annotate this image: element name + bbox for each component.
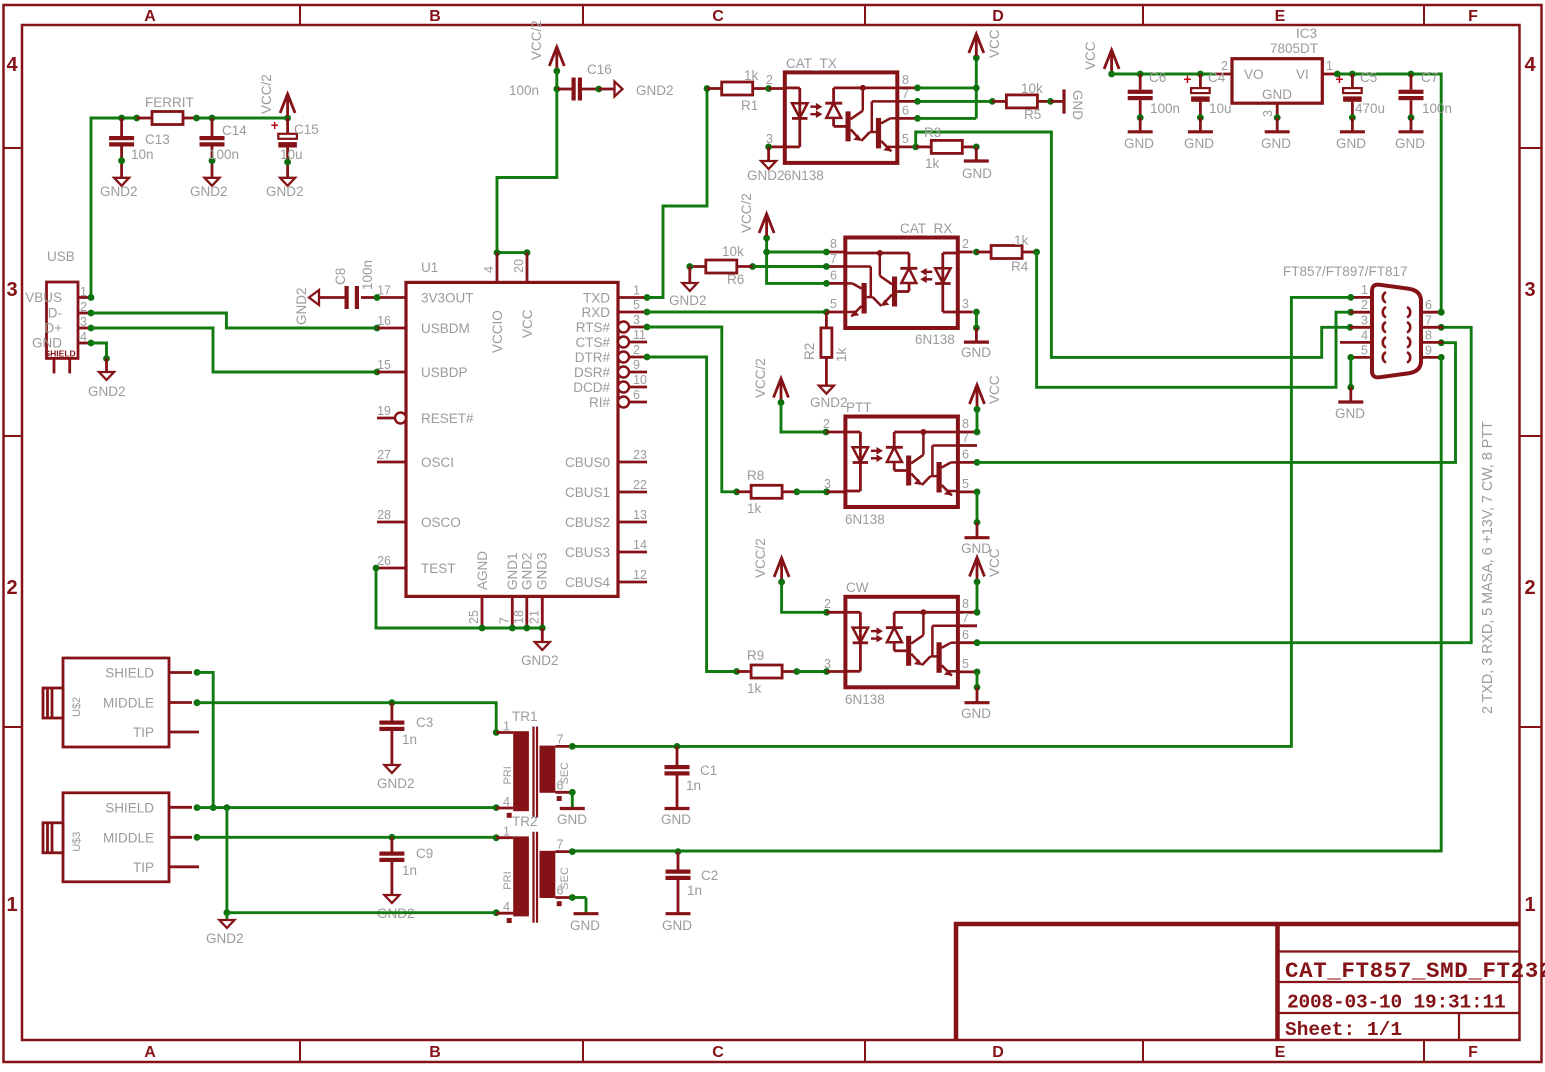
- supply VCC/2 (C16): [549, 43, 564, 74]
- ground GND2 (C15): [266, 178, 304, 199]
- title block: [954, 922, 1520, 1040]
- svg-text:19: 19: [377, 404, 391, 418]
- svg-text:CBUS2: CBUS2: [565, 515, 610, 530]
- svg-text:VCC/2: VCC/2: [753, 358, 768, 398]
- svg-text:5: 5: [902, 132, 909, 146]
- svg-text:CAT_FT857_SMD_FT232: CAT_FT857_SMD_FT232: [1285, 958, 1545, 984]
- junction DB9 pin6: [1438, 309, 1445, 316]
- svg-text:U1: U1: [421, 260, 438, 275]
- svg-text:DSR#: DSR#: [574, 365, 611, 380]
- ground GND2 (CAT_TX pin3): [747, 161, 785, 183]
- svg-text:7: 7: [902, 87, 909, 101]
- svg-text:GND2: GND2: [669, 293, 707, 308]
- svg-text:2: 2: [80, 300, 87, 314]
- wire TR2 pin6 to GND: [569, 894, 586, 914]
- label R9 1k: [747, 648, 764, 696]
- label IC3 7805DT: [1270, 26, 1318, 56]
- capacitor C13: [109, 118, 134, 178]
- wire GND2 branch (jacks): [224, 808, 231, 917]
- svg-text:5: 5: [1361, 344, 1368, 358]
- svg-text:GND2: GND2: [747, 168, 785, 183]
- svg-text:8: 8: [902, 73, 909, 87]
- svg-text:9: 9: [633, 358, 640, 372]
- svg-text:C5: C5: [1360, 70, 1377, 85]
- svg-text:7805DT: 7805DT: [1270, 41, 1318, 56]
- resistor R5 10k: [992, 95, 1054, 108]
- svg-text:7: 7: [557, 838, 564, 852]
- ground GND2 (C9): [377, 895, 415, 921]
- svg-text:GND: GND: [1184, 136, 1214, 151]
- svg-text:TR2: TR2: [512, 814, 538, 829]
- wire CAT_TX pin5 to DB9 pin3: [912, 132, 1353, 357]
- wire DB9 pin5 to GND: [1347, 354, 1354, 402]
- svg-text:4: 4: [1361, 329, 1368, 343]
- svg-text:470u: 470u: [1355, 101, 1385, 116]
- capacitor C3: [379, 703, 404, 765]
- svg-text:20: 20: [512, 259, 526, 273]
- svg-text:7: 7: [962, 431, 969, 445]
- IC3 pin3 GND: [1261, 103, 1291, 151]
- svg-text:6: 6: [902, 104, 909, 118]
- svg-text:GND2: GND2: [377, 776, 415, 791]
- PTT right stubs + numbers: [958, 417, 977, 492]
- U1 pin labels right: [565, 291, 611, 591]
- svg-text:RI#: RI#: [589, 395, 611, 410]
- svg-text:1: 1: [633, 284, 640, 298]
- svg-text:R3: R3: [924, 125, 941, 140]
- ground GND (CAT_RX): [961, 342, 991, 360]
- wire PTT pin6 to DB9 pin8: [974, 339, 1456, 465]
- svg-text:1: 1: [1326, 59, 1333, 73]
- resistor R9 1k: [733, 657, 845, 678]
- svg-text:1: 1: [1361, 283, 1368, 297]
- svg-text:RXD: RXD: [581, 305, 610, 320]
- wire U$2 SHIELD net: [194, 669, 217, 811]
- svg-text:DTR#: DTR#: [575, 350, 611, 365]
- pin numbers USB 1-4: [80, 285, 87, 344]
- svg-text:C9: C9: [416, 846, 433, 861]
- ground GND (R3): [962, 147, 992, 181]
- svg-text:5: 5: [962, 657, 969, 671]
- svg-text:F: F: [1468, 8, 1478, 25]
- resistor R4 1k: [973, 246, 1040, 259]
- svg-text:1n: 1n: [686, 778, 701, 793]
- svg-text:C: C: [712, 1044, 724, 1061]
- svg-text:14: 14: [633, 538, 647, 552]
- ground GND (TR1): [557, 809, 587, 828]
- svg-text:C8: C8: [333, 268, 348, 285]
- svg-text:2008-03-10 19:31:11: 2008-03-10 19:31:11: [1287, 992, 1506, 1014]
- capacitor C9: [379, 837, 404, 895]
- svg-text:6N138: 6N138: [784, 168, 824, 183]
- svg-text:GND: GND: [662, 918, 692, 933]
- label R3 1k: [924, 125, 941, 171]
- DB9 pin numbers: [1361, 283, 1432, 358]
- wire U$3 SHIELD net to TR1 pin4: [194, 804, 500, 811]
- svg-text:SEC: SEC: [559, 762, 571, 785]
- wire RXD net: [644, 309, 830, 316]
- svg-text:8: 8: [962, 417, 969, 431]
- svg-text:1n: 1n: [402, 732, 417, 747]
- svg-text:RTS#: RTS#: [576, 320, 611, 335]
- wire TR2 pin4 row: [227, 909, 500, 916]
- wire VCC/2 to PTT pin2: [781, 403, 845, 436]
- label C8 100n (vertical): [333, 260, 375, 290]
- svg-text:4: 4: [80, 330, 87, 344]
- svg-text:OSCI: OSCI: [421, 455, 454, 470]
- svg-text:8: 8: [962, 597, 969, 611]
- svg-text:26: 26: [377, 554, 391, 568]
- wire TXD net: [644, 85, 711, 301]
- label VCC (CAT_TX): [987, 29, 1002, 58]
- svg-text:1k: 1k: [1014, 233, 1029, 248]
- wire PTT pin5 to GND: [974, 489, 981, 538]
- connector U$3 jack: [43, 793, 199, 882]
- transformer TR1: [496, 720, 572, 818]
- svg-text:C6: C6: [1149, 70, 1166, 85]
- capacitor C14: [200, 118, 225, 178]
- wire USB GND to GND2: [91, 343, 110, 372]
- ground GND (DB9): [1335, 402, 1365, 421]
- svg-text:MIDDLE: MIDDLE: [103, 830, 154, 845]
- svg-text:GND2: GND2: [810, 395, 848, 410]
- ground GND (PTT): [961, 538, 991, 556]
- svg-text:USBDM: USBDM: [421, 321, 470, 336]
- svg-text:VCC: VCC: [520, 309, 535, 338]
- optocoupler CAT_TX 6N138: [785, 72, 898, 162]
- svg-text:1k: 1k: [747, 501, 762, 516]
- svg-text:GND: GND: [1070, 90, 1085, 120]
- svg-text:16: 16: [377, 314, 391, 328]
- svg-text:IC3: IC3: [1296, 26, 1317, 41]
- IC IC3 7805DT body: [1215, 59, 1340, 103]
- wire D+ to USBDP: [91, 328, 380, 375]
- wire DTR net to R9: [644, 354, 737, 672]
- label R4 1k: [1011, 233, 1029, 274]
- U1 left pins 17/16/15: [377, 284, 406, 373]
- U1 pins 27/28/26: [377, 448, 406, 568]
- svg-text:R5: R5: [1024, 107, 1041, 122]
- wire VCC to PTT pin8: [974, 409, 981, 435]
- wire RTS net to R8: [644, 324, 737, 492]
- connector U$2 jack: [43, 658, 199, 747]
- svg-text:6: 6: [962, 628, 969, 642]
- svg-text:100n: 100n: [209, 147, 239, 162]
- resistor R8 1k: [733, 477, 845, 498]
- ground GND (C4): [1184, 132, 1214, 151]
- svg-text:1: 1: [1524, 894, 1535, 916]
- wire VCC/2 to CW pin2: [782, 582, 846, 616]
- svg-text:OSCO: OSCO: [421, 515, 461, 530]
- svg-text:GND1: GND1: [505, 552, 520, 590]
- label 6N138 (PTT): [845, 512, 885, 527]
- svg-text:+: +: [271, 118, 279, 133]
- svg-text:TR1: TR1: [512, 709, 538, 724]
- svg-text:100n: 100n: [509, 83, 539, 98]
- svg-text:GND2: GND2: [520, 552, 535, 590]
- svg-text:CBUS0: CBUS0: [565, 455, 610, 470]
- wire U$3 MIDDLE to TR2 pin1: [194, 834, 500, 841]
- svg-text:SHIELD: SHIELD: [105, 666, 154, 681]
- CAT_RX left stubs + numbers: [826, 237, 845, 312]
- svg-text:1k: 1k: [925, 156, 940, 171]
- wire CAT_TX VCC net (pins 8,6): [914, 54, 980, 121]
- svg-text:6: 6: [830, 269, 837, 283]
- svg-text:TEST: TEST: [421, 561, 456, 576]
- svg-text:GND2: GND2: [294, 287, 309, 325]
- svg-text:CW: CW: [846, 580, 869, 595]
- label FERRIT: [145, 95, 194, 110]
- svg-text:GND: GND: [1262, 87, 1292, 102]
- label VCC/2 (C16): [529, 20, 544, 60]
- capacitor C15 (polarized): [271, 118, 297, 178]
- svg-text:7: 7: [557, 732, 564, 746]
- wire TR2 pin7 junction: [569, 848, 682, 855]
- svg-text:D: D: [992, 1044, 1004, 1061]
- capacitor C2: [666, 852, 691, 914]
- label C2 1n: [687, 868, 718, 898]
- svg-text:3V3OUT: 3V3OUT: [421, 291, 474, 306]
- svg-text:GND: GND: [661, 812, 691, 827]
- svg-text:4: 4: [1524, 54, 1536, 76]
- capacitor C6: [1128, 74, 1153, 132]
- ground GND2 (USB): [88, 372, 126, 399]
- svg-text:VCC/2: VCC/2: [753, 538, 768, 578]
- resistor R2 1k (vertical): [821, 312, 832, 386]
- svg-text:GND2: GND2: [636, 83, 674, 98]
- wire TR1 pin7 junction: [569, 743, 681, 750]
- svg-text:GND: GND: [557, 812, 587, 827]
- supply VCC (PTT): [970, 381, 985, 413]
- svg-text:Sheet: 1/1: Sheet: 1/1: [1285, 1019, 1402, 1041]
- svg-text:10k: 10k: [1021, 81, 1043, 96]
- label VCC/2: [259, 74, 274, 114]
- label C5 470u: [1355, 70, 1385, 116]
- svg-text:10u: 10u: [1209, 101, 1232, 116]
- capacitor C8: [319, 286, 380, 309]
- transformer TR2: [496, 825, 572, 923]
- CAT_TX right stubs + pin numbers: [897, 73, 917, 147]
- label R8 1k: [747, 468, 764, 516]
- svg-text:27: 27: [377, 448, 391, 462]
- svg-text:VCC: VCC: [987, 375, 1002, 404]
- capacitor C16: [553, 71, 602, 101]
- svg-text:C7: C7: [1421, 70, 1438, 85]
- svg-text:100n: 100n: [1422, 101, 1452, 116]
- svg-text:3: 3: [1524, 279, 1535, 301]
- label U1: [421, 260, 438, 275]
- label C15 10u: [280, 122, 319, 162]
- IC U1 FT232 body: [406, 282, 618, 596]
- svg-text:FERRIT: FERRIT: [145, 95, 194, 110]
- wire TEST/AGND net: [373, 565, 546, 642]
- svg-text:E: E: [1275, 8, 1286, 25]
- svg-text:CBUS4: CBUS4: [565, 575, 611, 590]
- svg-text:23: 23: [633, 448, 647, 462]
- svg-text:A: A: [144, 8, 156, 25]
- svg-text:D: D: [992, 8, 1004, 25]
- svg-text:18: 18: [512, 610, 526, 624]
- U1 pin labels left: [421, 291, 474, 577]
- svg-text:GND: GND: [1124, 136, 1154, 151]
- wire R4 to DB9 pin2: [1037, 252, 1355, 387]
- svg-text:2: 2: [766, 73, 773, 87]
- svg-text:GND2: GND2: [206, 931, 244, 946]
- label R2 1k (vertical): [802, 343, 849, 362]
- svg-text:E: E: [1275, 1044, 1286, 1061]
- svg-text:C: C: [712, 8, 724, 25]
- svg-text:5: 5: [633, 298, 640, 312]
- U1 right pins TXD/RXD group: [618, 284, 647, 408]
- svg-text:B: B: [429, 8, 441, 25]
- wire VCCIO net: [494, 89, 557, 256]
- svg-text:GND: GND: [1395, 136, 1425, 151]
- U1 pin 19 RESET# with bubble: [377, 404, 406, 424]
- svg-text:C3: C3: [416, 715, 433, 730]
- svg-text:C13: C13: [145, 132, 170, 147]
- label C6 100n: [1149, 70, 1180, 116]
- svg-text:15: 15: [377, 358, 391, 372]
- svg-text:TXD: TXD: [583, 291, 610, 306]
- svg-text:VCC/2: VCC/2: [529, 20, 544, 60]
- svg-text:GND2: GND2: [190, 184, 228, 199]
- svg-text:10k: 10k: [722, 244, 744, 259]
- svg-text:5: 5: [962, 477, 969, 491]
- supply VCC/2 (top-left): [280, 90, 295, 116]
- capacitor C4 (polarized): [1184, 72, 1210, 132]
- capacitor C1: [665, 746, 690, 808]
- svg-text:GND2: GND2: [88, 384, 126, 399]
- svg-text:GND: GND: [1335, 406, 1365, 421]
- svg-text:4: 4: [503, 900, 510, 914]
- svg-text:PRI: PRI: [502, 871, 514, 889]
- svg-text:VCC/2: VCC/2: [259, 74, 274, 114]
- svg-text:SHIELD: SHIELD: [45, 349, 76, 359]
- label VCC/2 (CAT_RX): [739, 193, 754, 233]
- ground GND (CW): [961, 703, 991, 721]
- svg-text:21: 21: [527, 610, 541, 624]
- label R5 10k: [1021, 81, 1043, 122]
- resistor R3 1k: [916, 140, 980, 153]
- svg-text:3: 3: [1361, 314, 1368, 328]
- CAT_RX right stubs + numbers: [958, 237, 973, 312]
- IC3 pin labels: [1244, 67, 1309, 102]
- svg-text:VO: VO: [1244, 67, 1264, 82]
- wire VCC to IC3 VI... input net: [1112, 71, 1216, 78]
- label C3 1n: [402, 715, 433, 747]
- svg-text:7: 7: [830, 252, 837, 266]
- svg-text:7: 7: [497, 617, 511, 624]
- svg-text:VBUS: VBUS: [25, 290, 62, 305]
- label C4 10u: [1208, 70, 1232, 116]
- label PTT: [846, 400, 872, 415]
- label TR2: [512, 814, 538, 829]
- svg-text:VI: VI: [1296, 67, 1309, 82]
- ground GND (TR2): [570, 914, 600, 933]
- svg-text:3: 3: [824, 477, 831, 491]
- ground GND (C1): [661, 809, 691, 828]
- svg-text:3: 3: [766, 132, 773, 146]
- svg-text:6N138: 6N138: [915, 332, 955, 347]
- supply VCC (CW): [970, 554, 985, 586]
- svg-text:3: 3: [1261, 110, 1275, 117]
- label VCC (CW): [987, 548, 1002, 577]
- svg-text:12: 12: [633, 568, 647, 582]
- svg-text:2: 2: [824, 597, 831, 611]
- ground GND (C6): [1124, 132, 1154, 151]
- svg-text:1: 1: [503, 720, 510, 734]
- CAT_TX pin 3 and GND2: [765, 132, 785, 161]
- capacitor C5 (polarized): [1336, 72, 1362, 132]
- svg-text:R4: R4: [1011, 259, 1029, 274]
- wire DB9 pin9 to TR2 sec: [572, 354, 1444, 851]
- svg-text:2 TXD, 3 RXD, 5 MASA, 6 +13V,: 2 TXD, 3 RXD, 5 MASA, 6 +13V, 7 CW, 8 PT…: [1480, 421, 1496, 714]
- wire IC3 output to DB9 pin6: [1337, 71, 1444, 316]
- svg-text:F: F: [1468, 1044, 1478, 1061]
- svg-text:GND2: GND2: [266, 184, 304, 199]
- optocoupler CAT_RX 6N138 (mirrored): [845, 238, 958, 329]
- svg-text:28: 28: [377, 508, 391, 522]
- ferrite bead FERRIT: [137, 112, 197, 125]
- ground GND (R5): [1051, 89, 1086, 120]
- svg-text:4: 4: [503, 795, 510, 809]
- ground GND (C7): [1395, 132, 1425, 151]
- ground GND2 (C8): [294, 287, 319, 325]
- svg-text:CBUS3: CBUS3: [565, 545, 610, 560]
- resistor R6 10k: [686, 260, 829, 273]
- svg-text:GND2: GND2: [521, 653, 559, 668]
- svg-text:GND: GND: [1261, 136, 1291, 151]
- svg-text:MIDDLE: MIDDLE: [103, 696, 154, 711]
- svg-text:CAT_TX: CAT_TX: [786, 56, 837, 71]
- svg-text:GND3: GND3: [535, 552, 550, 590]
- svg-text:CAT_RX: CAT_RX: [900, 221, 952, 236]
- svg-text:U$3: U$3: [71, 832, 83, 852]
- wire TR1 pin6 to GND: [569, 789, 576, 809]
- label C13 10n: [131, 132, 170, 162]
- svg-text:6N138: 6N138: [845, 512, 885, 527]
- svg-text:11: 11: [633, 328, 646, 342]
- wire DB9 pin1 to TR1 sec: [572, 294, 1354, 746]
- svg-text:100n: 100n: [1150, 101, 1180, 116]
- label R1 1k: [741, 68, 759, 113]
- svg-text:13: 13: [633, 508, 647, 522]
- connector USB: [25, 249, 90, 373]
- svg-text:1k: 1k: [747, 681, 762, 696]
- svg-text:7: 7: [962, 611, 969, 625]
- label 6N138 (CAT_TX): [784, 168, 824, 183]
- svg-text:GND: GND: [962, 166, 992, 181]
- svg-text:VCC: VCC: [987, 29, 1002, 58]
- svg-text:FT857/FT897/FT817: FT857/FT897/FT817: [1283, 264, 1408, 279]
- capacitor C7: [1399, 74, 1424, 132]
- svg-text:22: 22: [633, 478, 647, 492]
- supply VCC/2 (CW): [774, 554, 789, 585]
- svg-text:VCC: VCC: [987, 548, 1002, 577]
- svg-text:+: +: [1184, 72, 1192, 87]
- svg-text:6: 6: [1425, 298, 1432, 312]
- svg-text:AGND: AGND: [475, 551, 490, 590]
- svg-text:R2: R2: [802, 343, 817, 360]
- svg-text:C4: C4: [1208, 70, 1226, 85]
- svg-text:TIP: TIP: [133, 860, 154, 875]
- label CAT_TX: [786, 56, 837, 71]
- svg-text:C16: C16: [587, 62, 612, 77]
- svg-text:25: 25: [467, 610, 481, 624]
- wire FERRIT to VCC/2: [193, 115, 291, 122]
- svg-text:A: A: [144, 1044, 156, 1061]
- svg-text:3: 3: [6, 279, 17, 301]
